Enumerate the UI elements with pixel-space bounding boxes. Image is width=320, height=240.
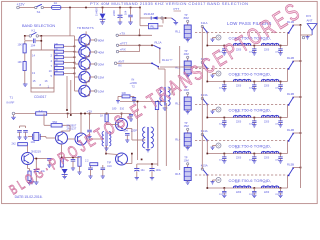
svg-text:40M: 40M [184,52,189,56]
svg-text:330: 330 [122,91,127,95]
svg-text:2200: 2200 [236,121,242,123]
svg-text:2200: 2200 [264,192,270,194]
svg-text:20M: 20M [98,62,104,66]
svg-text:2200: 2200 [249,88,255,90]
svg-text:10K: 10K [18,44,23,47]
svg-text:K14A: K14A [201,129,208,133]
svg-text:RL1A: RL1A [155,40,162,44]
svg-text:80M: 80M [98,38,104,42]
svg-text:2200: 2200 [264,85,270,87]
svg-text:T2: T2 [132,84,136,88]
svg-text:2200: 2200 [236,192,242,194]
svg-text:RL3B: RL3B [287,92,294,96]
svg-text:15T: 15T [263,111,267,113]
svg-text:+PTT: +PTT [120,41,128,45]
svg-text:13: 13 [32,71,35,75]
svg-text:10K: 10K [54,49,58,51]
svg-text:K15A: K15A [201,163,208,167]
svg-text:DATE:15-02-2016.: DATE:15-02-2016. [15,195,43,199]
svg-text:2200: 2200 [249,124,255,126]
svg-text:104: 104 [123,10,127,15]
svg-text:K11A: K11A [201,21,208,25]
svg-text:10u: 10u [141,169,146,172]
svg-text:2.2: 2.2 [85,160,89,163]
svg-text:1N4148: 1N4148 [144,12,155,16]
svg-text:180: 180 [112,107,117,111]
svg-text:10K: 10K [54,60,58,62]
svg-text:100u: 100u [156,169,162,172]
svg-text:2200: 2200 [236,85,242,87]
svg-text:15: 15 [33,79,36,83]
svg-text:2200: 2200 [236,157,242,159]
svg-text:RL: RL [151,25,155,29]
svg-text:T1: T1 [10,95,14,99]
svg-text:K13A: K13A [201,93,208,97]
svg-text:18T: 18T [235,75,239,77]
svg-text:2200: 2200 [249,194,255,196]
svg-text:2200: 2200 [112,10,116,16]
svg-text:15M: 15M [184,124,189,128]
svg-text:15T: 15T [263,182,267,184]
svg-text:15M: 15M [98,75,104,79]
svg-text:ANT: ANT [307,18,313,22]
svg-text:104: 104 [31,140,36,144]
svg-text:2N6137: 2N6137 [67,127,77,131]
svg-text:18T: 18T [235,182,239,184]
svg-text:IN RF: IN RF [7,100,15,104]
svg-text:15T: 15T [263,147,267,149]
svg-text:104: 104 [31,44,36,48]
svg-text:1A: 1A [54,1,58,5]
svg-text:10M: 10M [98,89,104,93]
svg-text:CD4017: CD4017 [34,95,47,99]
svg-text:1K: 1K [100,114,103,118]
svg-text:15T: 15T [263,75,267,77]
svg-text:10K: 10K [54,71,58,73]
svg-text:10: 10 [49,69,52,73]
svg-text:10K: 10K [18,61,23,64]
svg-text:TR BC547'S: TR BC547'S [77,26,94,30]
svg-text:RL2B: RL2B [287,56,294,60]
svg-text:RL5B: RL5B [287,163,294,167]
svg-text:+RX: +RX [120,48,126,52]
svg-text:PTT: PTT [174,7,180,11]
svg-text:+TX: +TX [120,31,126,35]
svg-text:RL1A 'T': RL1A 'T' [162,58,173,62]
svg-text:220P: 220P [131,129,137,133]
svg-text:2N2219: 2N2219 [31,150,41,154]
svg-text:10K: 10K [54,54,58,56]
svg-text:10K: 10K [54,65,58,67]
svg-text:2200: 2200 [264,157,270,159]
svg-text:K1: K1 [32,29,36,33]
svg-text:10K: 10K [54,43,58,45]
svg-text:18T: 18T [235,147,239,149]
svg-text:10M: 10M [184,158,189,162]
svg-text:2200: 2200 [264,121,270,123]
svg-text:RL4B: RL4B [287,128,294,132]
svg-text:16: 16 [45,79,48,83]
svg-text:+12V: +12V [17,2,26,6]
svg-text:TIP: TIP [107,161,111,165]
svg-text:14: 14 [32,54,35,58]
svg-text:2200: 2200 [264,49,270,51]
svg-text:BAND SELECTION: BAND SELECTION [22,24,55,28]
svg-text:2200: 2200 [249,160,255,162]
svg-text:40M: 40M [98,50,104,54]
svg-text:PTX 40M MULTIBAND 21535 KHZ VE: PTX 40M MULTIBAND 21535 KHZ VERSION CD40… [90,1,249,6]
svg-text:RL5: RL5 [175,172,181,176]
svg-text:18T: 18T [235,111,239,113]
svg-text:S1: S1 [37,10,41,14]
svg-text:1N4007: 1N4007 [95,6,99,16]
svg-text:RL1: RL1 [175,30,181,34]
svg-text:RX: RX [118,63,122,67]
svg-text:80M: 80M [184,16,189,20]
svg-text:ANT: ANT [118,59,124,63]
svg-text:2k2: 2k2 [12,142,17,146]
svg-text:41C: 41C [107,164,112,168]
